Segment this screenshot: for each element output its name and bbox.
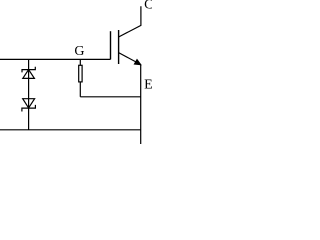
svg-text:C: C	[144, 0, 152, 13]
svg-text:G: G	[74, 44, 84, 59]
svg-text:E: E	[144, 77, 152, 92]
